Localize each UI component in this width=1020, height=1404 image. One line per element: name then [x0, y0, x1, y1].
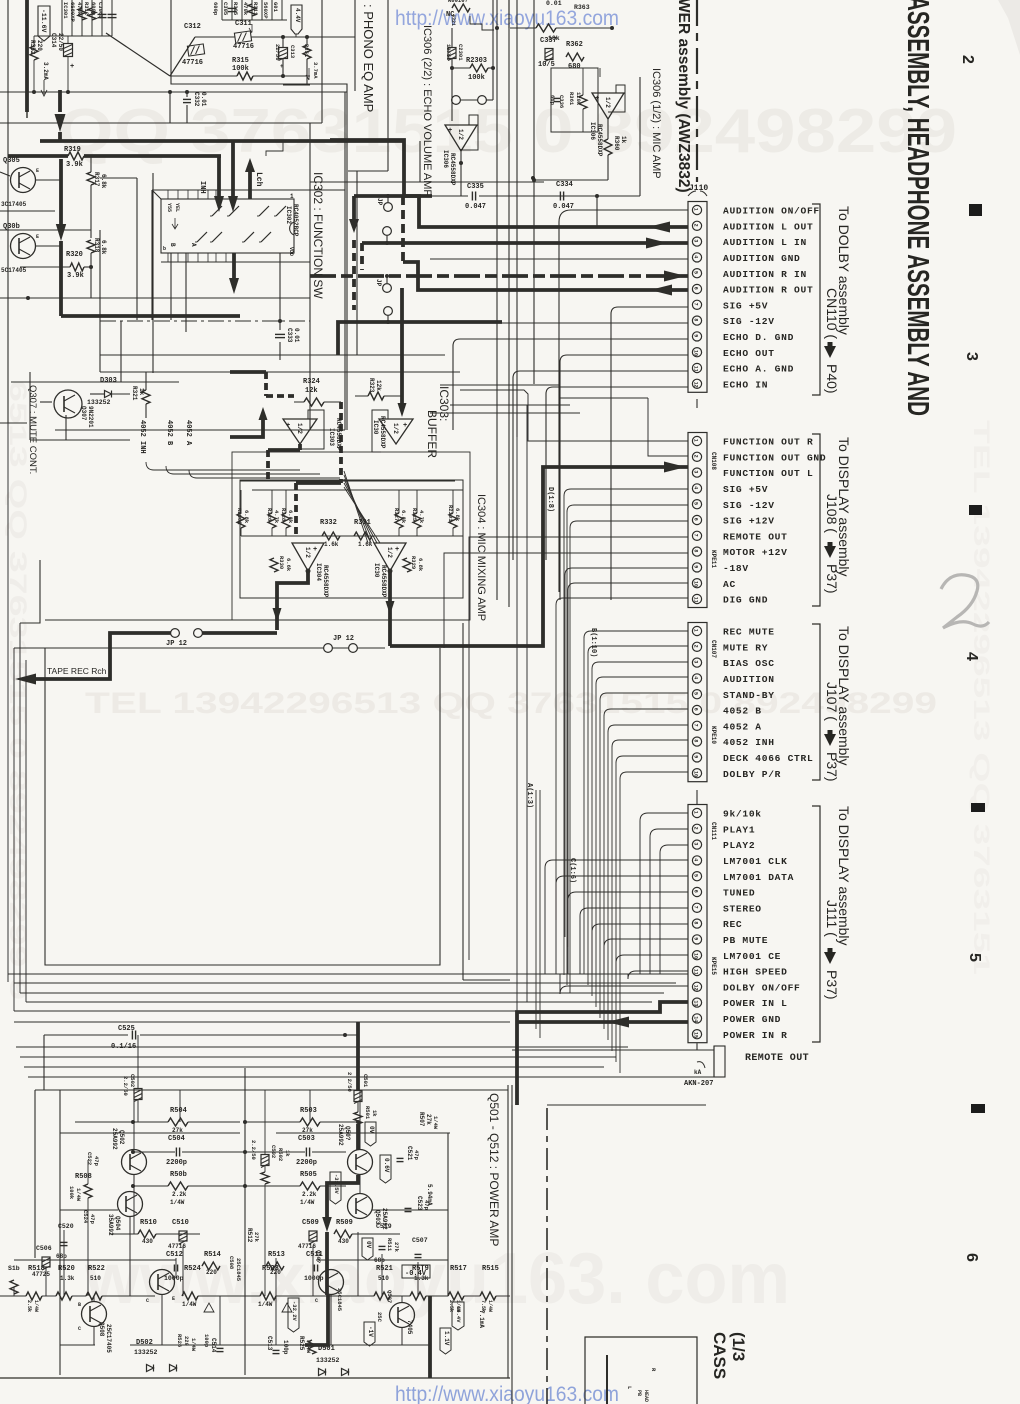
svg-text:C313: C313	[289, 45, 296, 59]
thick rail y141	[40, 139, 404, 143]
J110 pin 11 (ECHO A. GND)	[692, 363, 701, 372]
svg-text:R504: R504	[170, 1107, 187, 1115]
svg-text:ECHO OUT: ECHO OUT	[723, 348, 775, 359]
svg-text:2200p: 2200p	[166, 1159, 187, 1167]
op-amp IC306 2/2	[445, 125, 477, 151]
svg-text:100k: 100k	[468, 74, 485, 82]
svg-text:16.4V: 16.4V	[455, 1306, 462, 1323]
svg-text:47p: 47p	[89, 1214, 96, 1225]
wire V right arm	[170, 37, 195, 76]
svg-text:9: 9	[693, 755, 699, 758]
svg-text:47725: 47725	[32, 1271, 50, 1278]
svg-text:POWER GND: POWER GND	[723, 1014, 781, 1025]
svg-text:C337: C337	[540, 37, 557, 45]
svg-text:1.3k: 1.3k	[414, 1275, 429, 1282]
top resistor R2304	[452, 4, 470, 12]
svg-text:AC: AC	[723, 579, 736, 590]
svg-text:220: 220	[183, 1336, 190, 1346]
To DOLBY assembly CN110 bracket and label	[812, 204, 820, 395]
svg-text:6.8k: 6.8k	[417, 558, 424, 572]
svg-text:R503: R503	[300, 1107, 317, 1115]
thick wire to power amp	[356, 1022, 360, 1085]
svg-text:IC306: IC306	[589, 122, 596, 140]
wire CN107 to CN111 link	[696, 790, 698, 805]
wire audition gnd	[430, 258, 688, 260]
svg-text:REC: REC	[723, 919, 742, 930]
connector CN111 body	[688, 805, 707, 1043]
svg-text:R508: R508	[75, 1173, 92, 1181]
svg-text:ECHO IN: ECHO IN	[723, 379, 768, 390]
svg-text:1: 1	[290, 193, 294, 200]
svg-text:6: 6	[693, 890, 699, 893]
mixing rails y481 y490	[240, 480, 455, 482]
svg-text:+: +	[403, 422, 407, 430]
svg-text:15: 15	[693, 1032, 699, 1038]
CN108 pin 11 (DIG GND)	[692, 594, 701, 603]
svg-text:Y55: Y55	[166, 203, 172, 212]
svg-text:47716: 47716	[182, 59, 203, 67]
index tick 2	[969, 505, 982, 515]
svg-text:133252: 133252	[316, 1357, 340, 1364]
svg-text:AUDITION L OUT: AUDITION L OUT	[723, 221, 813, 232]
J110 pin 2 (AUDITION L OUT)	[692, 221, 701, 230]
svg-text:kA: kA	[694, 1069, 702, 1076]
CN107 pin 3 (BIAS OSC)	[692, 658, 701, 667]
mixing rail y536	[241, 535, 463, 537]
wire CN108 pin7 pin8 feeds	[469, 537, 688, 960]
svg-text:C501: C501	[362, 1074, 369, 1088]
CN111 pin 5 (LM7001 DATA)	[692, 872, 701, 881]
svg-text:AUDITION L IN: AUDITION L IN	[723, 237, 807, 248]
svg-text:P37): P37)	[824, 752, 840, 782]
svg-text:R507: R507	[418, 1112, 425, 1127]
svg-text:10: 10	[693, 953, 699, 959]
svg-text:TEL 13942296513 QQ 37631515 0: TEL 13942296513 QQ 37631515 0 892498299	[85, 687, 937, 720]
svg-text:REMOTE OUT: REMOTE OUT	[723, 531, 788, 542]
svg-text:680: 680	[568, 63, 581, 71]
svg-text:133252: 133252	[87, 399, 111, 406]
CN107 pin 8 (4052 INH)	[692, 737, 701, 746]
svg-text:1/2: 1/2	[604, 97, 611, 108]
svg-text:KPE10: KPE10	[710, 726, 717, 744]
wire CN108 hook feeds down	[564, 489, 688, 496]
svg-text:4052 INH: 4052 INH	[138, 420, 146, 454]
J110 pin 5 (AUDITION R IN)	[692, 269, 701, 278]
svg-text:TUNED: TUNED	[723, 888, 755, 899]
J110 pin 10 (ECHO OUT)	[692, 348, 701, 357]
svg-text:YEL: YEL	[174, 203, 180, 212]
thick wire buffer out	[400, 288, 404, 404]
wire J110 pin7 sig+5	[611, 307, 688, 314]
assembly boundary dash-dot line	[696, 0, 698, 182]
svg-text:LM7001 DATA: LM7001 DATA	[723, 872, 794, 883]
svg-text:5C17405: 5C17405	[1, 267, 27, 274]
svg-text:C509: C509	[302, 1219, 319, 1227]
svg-text:27k: 27k	[393, 1242, 400, 1253]
svg-text:RC4558DXP: RC4558DXP	[379, 416, 386, 449]
voltage box -1V	[364, 1322, 375, 1346]
svg-text:27k: 27k	[253, 1232, 260, 1243]
svg-text:1/2: 1/2	[392, 423, 399, 434]
svg-text:C502: C502	[129, 1074, 136, 1087]
connector J110 body	[688, 202, 707, 393]
bus left risers	[7, 423, 9, 982]
svg-text:2: 2	[693, 645, 699, 648]
svg-text:Q307 : MUTE CONT.: Q307 : MUTE CONT.	[27, 385, 38, 474]
svg-text:SIG -12V: SIG -12V	[723, 500, 775, 511]
svg-text:STEREO: STEREO	[723, 903, 762, 914]
svg-text:C314: C314	[50, 33, 57, 48]
svg-text:R0010?: R0010?	[448, 0, 468, 4]
svg-text:IC302 : FUNCTION SW: IC302 : FUNCTION SW	[311, 172, 325, 299]
svg-text:FUNCTION OUT GND: FUNCTION OUT GND	[723, 452, 826, 463]
svg-text:4: 4	[693, 255, 699, 258]
svg-text:C508: C508	[228, 1256, 235, 1270]
CN111 pin 4 (LM7001 CLK)	[692, 856, 701, 865]
echo bus verticals	[492, 0, 494, 100]
svg-text:3.9k: 3.9k	[66, 161, 83, 169]
warning triangle left	[204, 1303, 214, 1312]
svg-text:6.8k: 6.8k	[100, 174, 107, 189]
svg-text:E: E	[172, 1296, 175, 1302]
wire resistor row	[0, 1295, 26, 1297]
svg-text:R332: R332	[320, 519, 337, 527]
svg-text:DOLBY ON/OFF: DOLBY ON/OFF	[723, 982, 801, 993]
svg-text:4321: 4321	[450, 14, 456, 26]
svg-text:2200p: 2200p	[296, 1159, 317, 1167]
thick wire Q501 down	[327, 1175, 358, 1218]
thick power in L wire	[517, 1002, 688, 1022]
svg-text:1k: 1k	[284, 1150, 291, 1157]
svg-text:JP: JP	[375, 279, 382, 287]
svg-text:R525: R525	[298, 1336, 305, 1351]
svg-text:0.047: 0.047	[465, 203, 486, 211]
CN107 pin 1 (REC MUTE)	[692, 626, 701, 635]
svg-text:C332: C332	[193, 92, 200, 107]
bottom right dash-dot boundary	[546, 1108, 548, 1404]
svg-text:4052 B: 4052 B	[723, 706, 762, 717]
transistor Q307	[54, 390, 82, 418]
thick left rail top	[25, 0, 29, 112]
voltage box -11.6V	[38, 6, 50, 41]
CN111 pin 3 (PLAY2)	[692, 840, 701, 849]
svg-text:3: 3	[693, 470, 699, 473]
phono input component cluster 1	[61, 0, 63, 36]
transistor Q505	[319, 1270, 344, 1295]
svg-text:C504: C504	[168, 1135, 185, 1143]
svg-text:6.8k: 6.8k	[100, 240, 107, 255]
thick dash down to IC304A	[339, 402, 343, 483]
svg-text:REMOTE OUT: REMOTE OUT	[745, 1053, 809, 1064]
horizontal bus wires	[8, 973, 688, 975]
connector CN108 body	[688, 433, 707, 608]
svg-text:TAPE REC Rch: TAPE REC Rch	[47, 666, 107, 676]
hooks 4052	[146, 462, 300, 470]
voltage box 0.6V	[380, 1155, 391, 1183]
svg-text:66p: 66p	[549, 95, 556, 106]
staircase wire	[266, 141, 283, 156]
svg-text:D502: D502	[136, 1339, 153, 1347]
CN107 pin 10 (DOLBY P/R)	[692, 769, 701, 778]
resistor group left symbols	[237, 513, 245, 528]
svg-text:0V: 0V	[365, 1241, 372, 1249]
svg-text:R515: R515	[482, 1265, 499, 1273]
phono right verticals	[321, 0, 323, 85]
svg-text:R502: R502	[277, 1148, 284, 1161]
svg-text:1/4W: 1/4W	[182, 1301, 197, 1308]
svg-text:KPE11: KPE11	[710, 550, 717, 568]
wire J110 pin12 echo in	[546, 387, 688, 394]
svg-text:1/2: 1/2	[457, 129, 464, 140]
svg-text:3.7mA: 3.7mA	[312, 62, 319, 79]
svg-text:R524: R524	[184, 1265, 201, 1273]
svg-text:4052 A: 4052 A	[184, 420, 192, 446]
phono component cluster 2	[221, 0, 223, 20]
svg-text:7: 7	[693, 303, 699, 306]
svg-text:11: 11	[693, 366, 699, 372]
svg-text:-1V: -1V	[367, 1326, 374, 1337]
svg-text:R517: R517	[450, 1265, 467, 1273]
CN111 pin 2 (PLAY1)	[692, 824, 701, 833]
voltage box -32.2V	[288, 1298, 299, 1332]
power amp grid verticals	[34, 1090, 36, 1258]
svg-text:R510: R510	[140, 1219, 157, 1227]
svg-text:-18V: -18V	[723, 563, 749, 574]
svg-text:12k: 12k	[375, 380, 382, 391]
thin bus line y1022	[14, 1021, 510, 1023]
svg-text:ECHO A. GND: ECHO A. GND	[723, 364, 794, 375]
svg-text:1/4W: 1/4W	[33, 1300, 39, 1312]
IC302 pin stubs top	[167, 190, 169, 199]
svg-text:430: 430	[338, 1238, 349, 1245]
svg-text:35A992: 35A992	[107, 1214, 114, 1236]
svg-text:1.3k: 1.3k	[60, 1275, 75, 1282]
svg-text:-11.6V: -11.6V	[40, 9, 47, 33]
svg-text:(1/3: (1/3	[729, 1332, 748, 1361]
svg-text:2.2/50: 2.2/50	[346, 1072, 353, 1092]
voltage box 4.4V	[291, 5, 302, 34]
J110 pin 1 (AUDITION ON/OFF)	[692, 205, 701, 214]
svg-text:1/2: 1/2	[304, 547, 311, 558]
svg-text:IC306 (1/2) : MIC AMP: IC306 (1/2) : MIC AMP	[650, 68, 662, 179]
svg-text:Q507: Q507	[386, 1290, 393, 1303]
wire CN111 feeds	[640, 813, 688, 821]
svg-text:CN111: CN111	[710, 822, 717, 840]
CN107 pin 9 (DECK 4066 CTRL)	[692, 753, 701, 762]
thick tape rec wire with JP 12	[198, 631, 277, 635]
svg-text:5: 5	[966, 953, 983, 962]
svg-text:REC MUTE: REC MUTE	[723, 627, 775, 638]
svg-text:68p: 68p	[56, 1253, 67, 1260]
svg-text:25A992: 25A992	[111, 1128, 118, 1150]
svg-text:2.2k: 2.2k	[302, 1191, 317, 1198]
svg-text:100p: 100p	[203, 1334, 210, 1348]
svg-text:DOLBY P/R: DOLBY P/R	[723, 769, 781, 780]
svg-text:CASS: CASS	[710, 1332, 729, 1379]
wire J110 pin11 echo a gnd	[513, 371, 688, 378]
thick stub down with arrow	[352, 196, 356, 220]
svg-text:6: 6	[963, 1253, 980, 1262]
svg-text:1: 1	[693, 439, 699, 442]
svg-text:2: 2	[693, 224, 699, 227]
svg-text:0.01: 0.01	[546, 0, 562, 7]
svg-text:2.5k: 2.5k	[26, 1300, 32, 1312]
svg-text:Q305: Q305	[3, 157, 20, 165]
svg-text:27k: 27k	[302, 1127, 313, 1134]
op-amp feedback loop echo	[461, 115, 478, 150]
svg-text:RC4558DXP: RC4558DXP	[449, 153, 456, 186]
svg-text:DIG GND: DIG GND	[723, 595, 768, 606]
wire CN108 pin2 riser	[648, 398, 688, 456]
svg-text:1.1V: 1.1V	[443, 1331, 450, 1346]
CN108 pin 9 (-18V)	[692, 563, 701, 572]
transistor Q502	[122, 1150, 147, 1175]
svg-text:1: 1	[693, 208, 699, 211]
svg-text:25A992: 25A992	[337, 1124, 344, 1146]
svg-text:5: 5	[693, 271, 699, 274]
CN108 pin 2 (FUNCTION OUT GND)	[692, 452, 701, 461]
J110 pin 12 (ECHO IN)	[692, 379, 701, 388]
scan corner shade	[998, 0, 1020, 55]
svg-text:47p: 47p	[93, 1156, 100, 1167]
To DISPLAY assembly J111 bracket and label	[812, 806, 820, 1042]
svg-text:3: 3	[693, 842, 699, 845]
svg-text:HEAD: HEAD	[643, 1390, 649, 1402]
svg-text:7: 7	[693, 534, 699, 537]
svg-text:C336: C336	[558, 95, 565, 108]
op-amp IC303 B	[379, 419, 413, 444]
CN111 pin 1 (9k/10k)	[692, 808, 701, 817]
svg-text:6S80XP: 6S80XP	[69, 2, 76, 23]
svg-text:A: A	[190, 243, 197, 247]
svg-text:Q50?: Q50?	[344, 1126, 351, 1141]
svg-text:2: 2	[693, 827, 699, 830]
svg-text:1k: 1k	[620, 136, 627, 144]
svg-text:C311: C311	[235, 20, 252, 28]
transistor Q506	[150, 1270, 175, 1295]
svg-text:6: 6	[693, 708, 699, 711]
svg-text:G01: G01	[272, 2, 279, 13]
thick arrow below IC302	[232, 253, 236, 278]
svg-text:BUFFER: BUFFER	[425, 410, 439, 458]
svg-text:3: 3	[693, 660, 699, 663]
power amp rail y1210	[60, 1209, 118, 1211]
svg-text:P40): P40)	[824, 364, 840, 394]
svg-text:BIAS OSC: BIAS OSC	[723, 658, 775, 669]
thin jumper line JP 12 second	[14, 647, 385, 649]
svg-text:R363: R363	[574, 4, 590, 11]
svg-text:IC304 : MIC MIXING AMP: IC304 : MIC MIXING AMP	[475, 494, 487, 621]
echo jumper circles	[452, 96, 461, 105]
svg-text:47p: 47p	[413, 1150, 420, 1161]
svg-text:47p: 47p	[423, 1200, 430, 1211]
op-amp IC303 A	[283, 419, 317, 444]
svg-text:9: 9	[693, 937, 699, 940]
connector CN107 body	[688, 623, 707, 782]
CN111 pin 7 (STEREO)	[692, 903, 701, 912]
svg-text:RC4558DXP: RC4558DXP	[380, 565, 387, 598]
wire CN108 pin1 riser	[460, 390, 688, 441]
svg-text:R323: R323	[368, 378, 375, 393]
CN107 pin 6 (4052 B)	[692, 705, 701, 714]
svg-text:Q504: Q504	[114, 1216, 121, 1231]
svg-text:LM7001 CE: LM7001 CE	[723, 951, 781, 962]
J110 pin 9 (ECHO D. GND)	[692, 332, 701, 341]
svg-text:C: C	[315, 1298, 318, 1304]
transistor Q503	[348, 1194, 373, 1219]
svg-text:C306b: C306b	[97, 2, 104, 19]
svg-text:560XP: 560XP	[262, 2, 269, 19]
voltage box -31.5V	[330, 1172, 341, 1204]
svg-text:5: 5	[693, 874, 699, 877]
svg-text:7: 7	[693, 906, 699, 909]
J110 pin 3 (AUDITION L IN)	[692, 237, 701, 246]
mic amp box	[551, 68, 598, 132]
svg-text:7405: 7405	[406, 1320, 413, 1335]
thick dash from IC303A apex	[298, 444, 302, 450]
svg-text:47716: 47716	[298, 1243, 316, 1250]
svg-text:JP 12: JP 12	[333, 635, 354, 643]
index tick 1	[969, 204, 982, 216]
svg-text:C503: C503	[298, 1135, 315, 1143]
thick power gnd wire with arrow	[517, 1020, 688, 1024]
svg-text:25C17405: 25C17405	[105, 1324, 112, 1353]
svg-text:MUTE RY: MUTE RY	[723, 642, 768, 653]
IC302 pin stubs bottom	[167, 253, 169, 262]
thick sig-12 wire	[338, 322, 502, 355]
svg-text:JP: JP	[376, 198, 383, 206]
IC302 switch row 1	[212, 206, 222, 216]
svg-text:+: +	[286, 422, 290, 430]
voltage box 0V lower	[362, 1238, 373, 1260]
svg-text:1.6k: 1.6k	[324, 541, 339, 548]
svg-text:PB: PB	[636, 1390, 642, 1396]
CN107 pin 5 (STAND-BY)	[692, 690, 701, 699]
svg-text:12: 12	[693, 985, 699, 991]
svg-text:b: b	[163, 246, 166, 252]
svg-text:11: 11	[693, 597, 699, 603]
svg-text:R330: R330	[278, 556, 285, 569]
svg-text:ASSEMBLY, HEADPHONE ASSEMBLY A: ASSEMBLY, HEADPHONE ASSEMBLY AND	[901, 0, 936, 416]
wire CN107 hook feeds down	[584, 631, 688, 638]
power amp bottom rail	[0, 1377, 510, 1379]
svg-text:5: 5	[693, 692, 699, 695]
svg-text:IC304: IC304	[315, 563, 322, 581]
thick left signal path to sig-12	[59, 159, 63, 224]
svg-text:C510: C510	[172, 1219, 189, 1227]
CN111 pin 9 (PB MUTE)	[692, 935, 701, 944]
svg-text:SIG +5V: SIG +5V	[723, 300, 768, 311]
svg-text:13: 13	[693, 1000, 699, 1006]
svg-text:2.2/50: 2.2/50	[250, 1140, 257, 1160]
CN107 pin 7 (4052 A)	[692, 721, 701, 730]
thick audition R in wire dashed	[310, 274, 688, 278]
svg-text:25C1845: 25C1845	[235, 1258, 242, 1282]
CN108 pin 10 (AC)	[692, 579, 701, 588]
svg-text:R360: R360	[613, 136, 620, 151]
svg-text:220: 220	[206, 1269, 217, 1276]
svg-text:0V: 0V	[368, 1126, 375, 1134]
svg-text:220: 220	[36, 40, 43, 51]
power amp rail y1133	[60, 1132, 240, 1134]
svg-text:4052 A: 4052 A	[723, 721, 762, 732]
svg-text:470k: 470k	[242, 2, 249, 16]
svg-text:+: +	[395, 546, 399, 554]
voltage box 1.1V	[440, 1328, 451, 1354]
svg-text:KPE15: KPE15	[710, 957, 717, 975]
svg-text:DECK 4066 CTRL: DECK 4066 CTRL	[723, 753, 813, 764]
IC302 box	[161, 199, 294, 253]
